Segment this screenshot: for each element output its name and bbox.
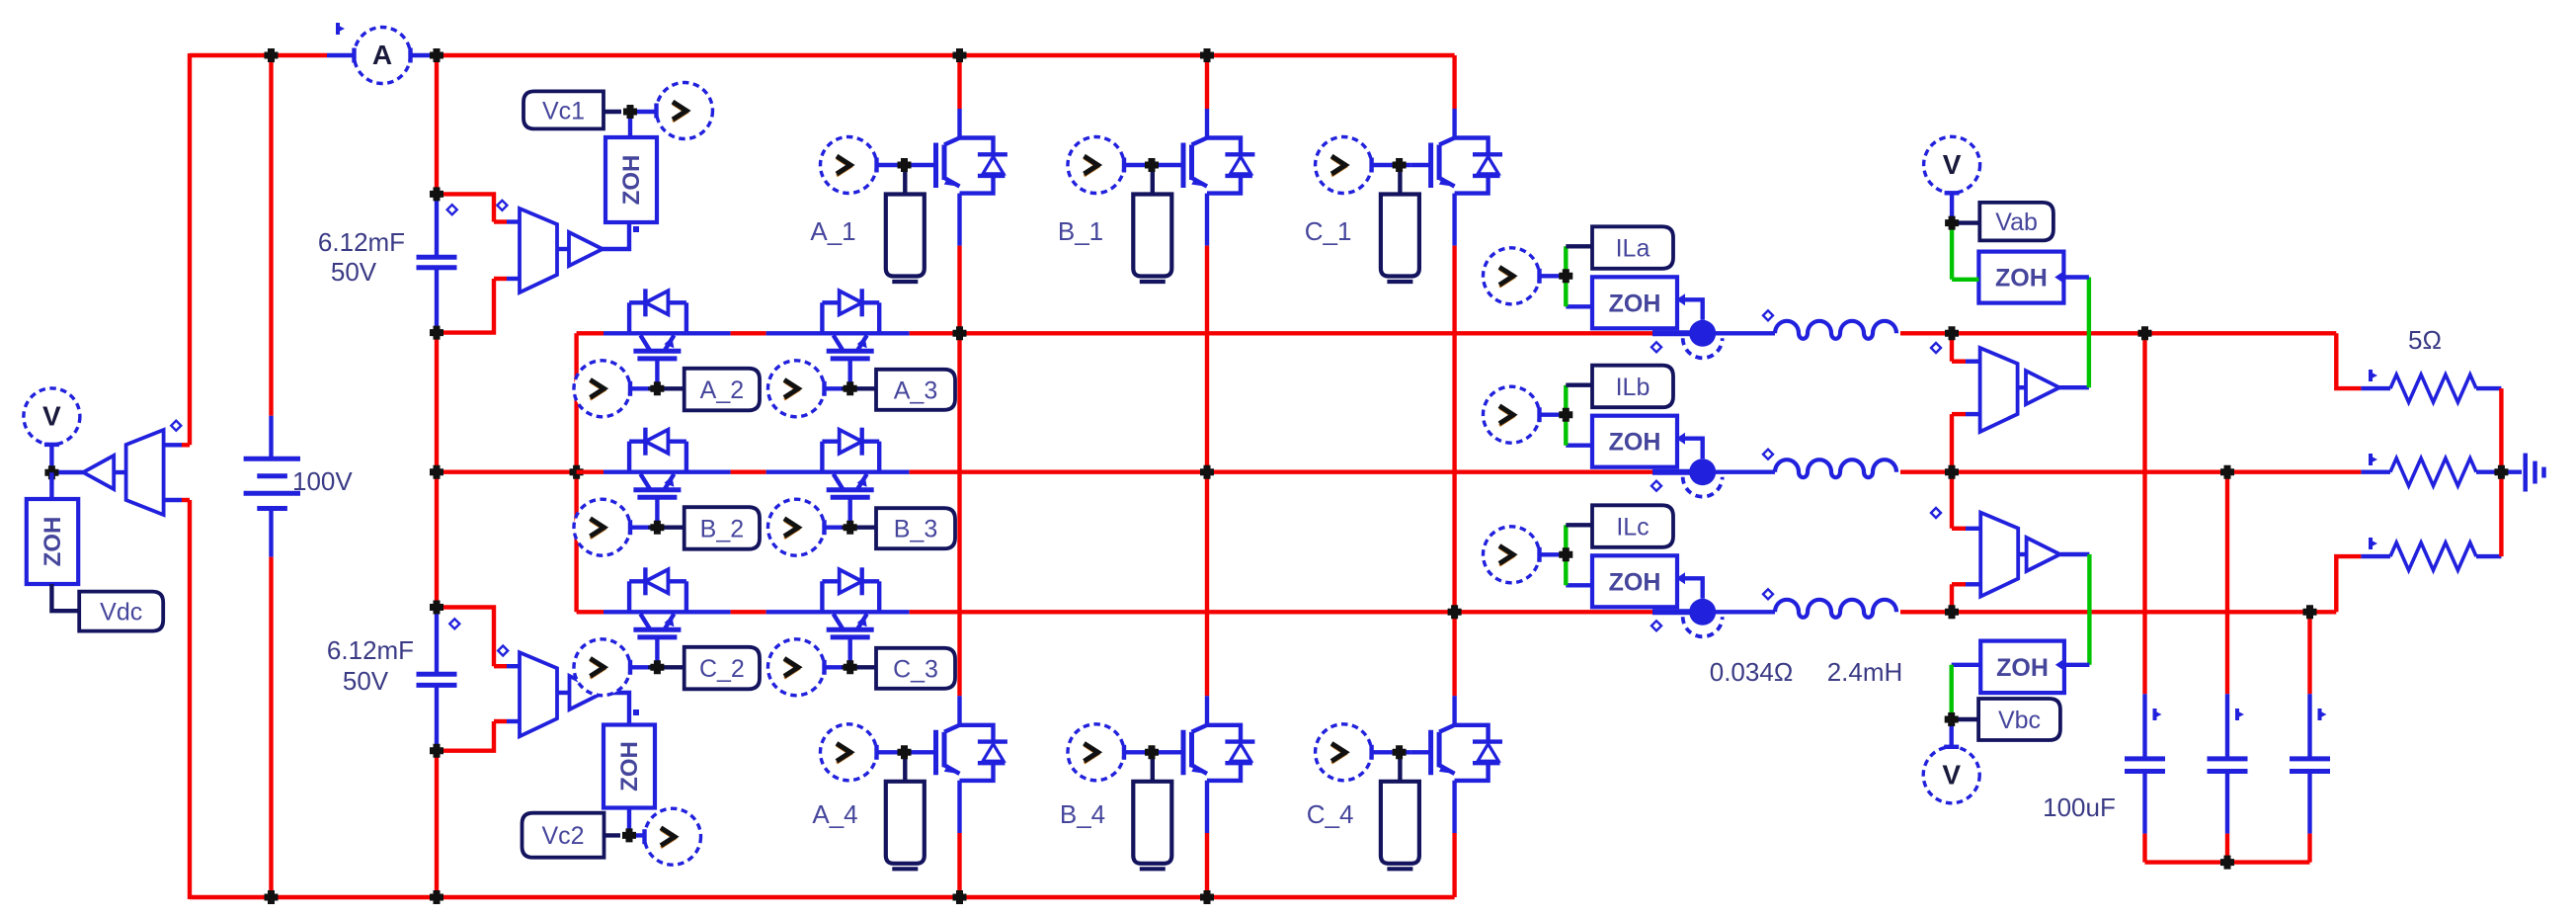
node A_3 gate [844, 381, 857, 395]
wire C1 bot tap [437, 279, 494, 333]
wire B_1 port link [1151, 165, 1155, 195]
gate probe C_3 [768, 639, 825, 696]
capacitor Cb 100uF [2208, 756, 2248, 761]
gain amp Vc1 [569, 232, 603, 266]
wire sensor to inductor [1716, 331, 1775, 335]
node B_3 gate [844, 521, 857, 535]
wire IL box link [1566, 383, 1592, 387]
ZOH block Vc1 [605, 137, 657, 222]
node sensor ILb [1559, 408, 1572, 422]
wire Cc tap [2307, 612, 2311, 694]
wire sensor signal [1685, 299, 1703, 320]
diode C_1 antiparallel [1455, 138, 1489, 155]
wire b output row [1207, 470, 1652, 474]
gate probe B_1 [1068, 137, 1124, 194]
transistor B_2 (clamp IGBT with diode) [627, 442, 631, 472]
wire C_4 port link [1398, 752, 1402, 782]
wire A_3 gate links [825, 386, 843, 390]
node source bottom [265, 890, 279, 904]
node mid bus [430, 465, 443, 479]
wire ammeter left stub [327, 53, 355, 57]
wire Vab lower stub [1950, 414, 1954, 472]
wire ZOH to Vdc box [51, 584, 79, 611]
svg-text:B_4: B_4 [1060, 799, 1105, 829]
transistor C_3 (clamp IGBT with diode) [820, 581, 824, 612]
inductor Lb 2.4mH [1775, 459, 1896, 477]
wire Rc out [2476, 554, 2501, 558]
node C_4 gate [1393, 745, 1407, 759]
wire inductor to node [1900, 331, 1952, 335]
wire node to probe [629, 833, 656, 837]
voltmeter mux Vc1 [520, 208, 557, 292]
wire Cb tap [2225, 472, 2229, 695]
wire sensor lead [1652, 609, 1690, 615]
node c row Vbc tap [1945, 605, 1959, 619]
wire C2 bot tap [437, 721, 494, 751]
svg-text:A_3: A_3 [894, 376, 937, 404]
wire B_1 gate link [1124, 163, 1164, 167]
polarity marker [498, 646, 508, 656]
capacitor C1 6.12mF [417, 255, 457, 260]
wire green link [1564, 246, 1568, 306]
svg-text:50V: 50V [343, 666, 389, 696]
wire Vdc mux bot stub [182, 498, 190, 502]
svg-text:Vab: Vab [1995, 208, 2038, 236]
node C_3 gate [844, 660, 857, 674]
wire cap chain C2 leads [435, 608, 439, 675]
transistor A_1 (IGBT) [933, 143, 938, 189]
ZOH block Vdc [27, 499, 78, 584]
svg-text:ZOH: ZOH [1609, 568, 1661, 596]
probe V dc-bus [24, 388, 80, 445]
polarity marker [1651, 621, 1661, 630]
svg-text:ZOH: ZOH [1609, 429, 1661, 457]
wire Vbc lower stub [1950, 584, 1954, 612]
voltmeter mux Vbc [1980, 513, 2018, 597]
wire Vab zoh in [2063, 275, 2089, 279]
wire C-leg bottom [1452, 781, 1456, 833]
probe V bc [1923, 747, 1979, 803]
wire green link [1564, 525, 1568, 585]
node C output [1448, 605, 1462, 619]
label box C_3 [876, 648, 955, 689]
wire sensor to inductor [1716, 610, 1775, 614]
node b row V tap [1945, 465, 1959, 479]
svg-text:B_1: B_1 [1058, 216, 1103, 246]
resistor Rc 5ohm [2390, 542, 2476, 570]
svg-text:B_3: B_3 [894, 516, 937, 543]
wire ZOH out link [1566, 444, 1592, 448]
label box A_3 [876, 370, 955, 410]
wire Ra out [2476, 386, 2501, 390]
wire Vbc zoh in [2064, 663, 2090, 667]
polarity marker [1931, 343, 1941, 353]
transistor A_4 (IGBT) [933, 730, 938, 776]
gate port A_4 [886, 782, 925, 864]
wire Vbc probe link [1949, 719, 1953, 747]
gate port B_4 [1133, 782, 1171, 864]
svg-text:ZOH: ZOH [1996, 654, 2049, 682]
wire A-leg middle [957, 194, 961, 246]
node Vdc [44, 465, 58, 479]
wire cap chain red top [435, 55, 439, 194]
label box C_2 [684, 647, 760, 690]
wire Vbc zoh out green [1952, 663, 1981, 667]
ZOH block Vab [1978, 252, 2063, 303]
node cap chain bottom [430, 890, 443, 904]
svg-text:Vdc: Vdc [100, 599, 142, 626]
node Cc row tap [2303, 605, 2317, 619]
label box Vab [1979, 203, 2053, 241]
diode A_4 antiparallel [960, 725, 994, 742]
wire Rc feed [2336, 556, 2361, 612]
wire ZOH out link [1566, 304, 1592, 308]
diode C_4 antiparallel [1455, 725, 1489, 742]
wire Vdc mux top stub [182, 443, 190, 447]
node B leg bottom [1200, 890, 1214, 904]
node B leg top [1200, 48, 1214, 62]
node A_2 gate [650, 381, 664, 395]
wire ammeter right stub [411, 53, 439, 57]
wire Vab box link [1952, 220, 1979, 224]
wire cap chain red bottom [435, 751, 439, 897]
label box ILb [1592, 366, 1673, 408]
current arrow marker [2369, 454, 2373, 465]
svg-text:V: V [42, 400, 61, 431]
wire A_2 gate links [630, 386, 648, 390]
node C_1 gate [1393, 158, 1407, 172]
svg-text:ILc: ILc [1616, 514, 1649, 542]
diode B_1 antiparallel [1207, 138, 1241, 155]
inductor Lc 2.4mH [1775, 600, 1896, 618]
gate probe A_2 [574, 361, 630, 417]
gate probe B_4 [1068, 724, 1124, 781]
diode B_4 antiparallel [1207, 725, 1241, 742]
ZOH block Vbc [1980, 641, 2064, 694]
voltmeter mux Vab [1980, 348, 2018, 432]
wire sensor lead [1652, 330, 1690, 336]
polarity marker [171, 421, 181, 431]
wire A-leg bottom [957, 781, 961, 833]
polarity marker [1651, 342, 1661, 352]
wire a-row to load [1952, 331, 2336, 335]
wire sensor lead [1652, 469, 1690, 475]
current arrow marker [2369, 538, 2373, 549]
label box ILa [1592, 226, 1673, 268]
label box B_2 [684, 507, 760, 549]
node C_2 gate [650, 660, 664, 674]
transistor C_2 (clamp IGBT with diode) [627, 581, 631, 612]
wire c-row rail [577, 610, 604, 614]
wire sensor signal [1685, 439, 1703, 459]
capacitor Ca 100uF [2125, 756, 2165, 761]
wire Cc bottom [2307, 772, 2311, 834]
wire Vbc box link [1952, 717, 1978, 721]
svg-text:A_4: A_4 [812, 799, 857, 829]
wire cap bank bottom bus [2145, 860, 2310, 864]
wire Vdc amp out [51, 470, 83, 474]
wire A_4 gate link [877, 750, 917, 754]
sample marker [633, 226, 639, 232]
node Ca row tap [2138, 326, 2152, 340]
wire Vc1 box link [604, 110, 621, 114]
gain amp Vc2 [570, 676, 604, 709]
wire sensor signal [1685, 578, 1703, 599]
wire c-row to load [1952, 610, 2336, 614]
wire Vab zoh out green [1952, 278, 1978, 282]
wire IL box link [1566, 523, 1592, 527]
transistor C_1 (IGBT) [1428, 143, 1433, 189]
node B_2 gate [650, 521, 664, 535]
polarity marker [1763, 310, 1773, 320]
wire node to ZOH [49, 472, 53, 499]
wire C-leg middle [1452, 194, 1456, 246]
wire b-row rail [577, 470, 604, 474]
current sensor ILb [1689, 458, 1716, 485]
wire Vdc mux out [114, 470, 125, 474]
wire inductor to node [1900, 610, 1952, 614]
svg-text:C_2: C_2 [699, 655, 745, 683]
wire B-leg middle [1205, 194, 1209, 246]
probe Vc1 [657, 83, 713, 139]
probe Vc2 [645, 808, 701, 865]
label box Vc1 [523, 91, 604, 128]
probe ILa [1484, 248, 1540, 304]
wire B_4 gate link [1124, 750, 1164, 754]
current arrow marker [2235, 709, 2239, 720]
wire ZOH out link [1566, 583, 1592, 587]
wire Vbc green down [2087, 554, 2091, 665]
diode A_1 antiparallel [960, 138, 994, 155]
wire Ca tap [2142, 333, 2146, 694]
wire Rb feed [2361, 470, 2390, 474]
wire Vbc mux out [2018, 552, 2026, 556]
gate port A_1 [886, 195, 925, 277]
svg-text:6.12mF: 6.12mF [327, 635, 414, 665]
wire B_2 gate links [630, 526, 648, 530]
wire A_1 port link [903, 165, 907, 195]
wire C_1 port link [1398, 165, 1402, 195]
wire left DC+ vertical (upper) [188, 53, 192, 445]
wire B_3 gate links [825, 526, 843, 530]
wire c output row [1455, 610, 1652, 614]
gate probe A_1 [821, 137, 877, 194]
wire green link [1564, 385, 1568, 446]
wire A_4 port link [903, 752, 907, 782]
ZOH block ILa [1592, 277, 1677, 328]
svg-text:100uF: 100uF [2043, 792, 2116, 822]
gate port B_1 [1133, 195, 1171, 277]
capacitor Cc 100uF [2290, 756, 2330, 761]
wire cap chain mid red [435, 333, 439, 608]
wire probe link [1540, 274, 1567, 278]
svg-text:B_2: B_2 [700, 516, 744, 543]
inductor La 2.4mH [1775, 321, 1896, 339]
wire inductor to node [1900, 470, 1952, 474]
svg-text:C_3: C_3 [893, 655, 938, 683]
svg-text:A_2: A_2 [700, 376, 744, 404]
node cap bank star [2220, 856, 2234, 870]
node A leg bottom [953, 890, 967, 904]
wire cap chain C1 leads [435, 194, 439, 257]
wire Cb bottom [2225, 772, 2229, 834]
wire probe link [1540, 552, 1567, 556]
wire Vc2 amp to ZOH [557, 691, 570, 695]
current arrow marker [2318, 709, 2322, 720]
wire Ca bottom [2142, 772, 2146, 834]
svg-text:V: V [1943, 149, 1962, 180]
ZOH block Vc2 [604, 725, 655, 808]
ground [2523, 454, 2528, 492]
wire B-leg bottom [1205, 781, 1209, 833]
svg-text:Vc2: Vc2 [541, 822, 584, 850]
wire probe link [1540, 413, 1567, 417]
polarity marker [1763, 450, 1773, 459]
probe ILb [1484, 386, 1540, 443]
gate port C_4 [1381, 782, 1419, 864]
wire C_1 gate link [1372, 163, 1411, 167]
svg-text:ILb: ILb [1616, 374, 1650, 401]
svg-text:ZOH: ZOH [1995, 265, 2048, 292]
svg-text:V: V [1942, 759, 1961, 790]
svg-text:Vbc: Vbc [1998, 707, 2041, 734]
wire A-leg top [957, 55, 961, 109]
polarity marker [1763, 589, 1773, 599]
gate probe A_4 [821, 724, 877, 781]
wire ZOH to node [628, 112, 632, 137]
transistor A_3 (clamp IGBT with diode) [820, 302, 824, 333]
wire C_2 gate links [630, 665, 648, 669]
svg-text:Vc1: Vc1 [542, 97, 585, 125]
node load star [2494, 465, 2508, 479]
sample marker [633, 709, 639, 715]
transistor A_2 (clamp IGBT with diode) [627, 302, 631, 333]
wire C_4 gate link [1372, 750, 1411, 754]
svg-text:ILa: ILa [1616, 235, 1650, 263]
label box ILc [1592, 505, 1673, 547]
current sensor ILc [1689, 599, 1716, 625]
svg-text:5Ω: 5Ω [2408, 325, 2442, 355]
svg-text:100V: 100V [292, 466, 353, 496]
wire clamp left vertical [574, 333, 578, 612]
gate probe B_2 [574, 499, 630, 555]
transistor C_4 (IGBT) [1428, 730, 1433, 776]
node Cb row tap [2220, 465, 2234, 479]
node Vab [1945, 216, 1959, 230]
capacitor C2 6.12mF [417, 672, 457, 677]
node B output [1200, 465, 1214, 479]
node mid bus tee [570, 465, 584, 479]
node B_1 gate [1145, 158, 1159, 172]
label box Vbc [1978, 699, 2060, 740]
wire source top [269, 55, 273, 416]
svg-text:C_4: C_4 [1307, 799, 1354, 829]
resistor Ra 5ohm [2390, 375, 2476, 402]
polarity marker [1651, 481, 1661, 491]
svg-text:A_1: A_1 [810, 216, 855, 246]
wire load star vertical [2499, 388, 2503, 556]
gate probe C_1 [1316, 137, 1372, 194]
svg-text:6.12mF: 6.12mF [318, 227, 405, 257]
gate probe C_2 [574, 639, 630, 696]
node a row Vab tap [1945, 326, 1959, 340]
wire Vab probe link [1950, 193, 1954, 227]
ZOH block ILc [1592, 555, 1677, 607]
gate probe A_3 [768, 361, 825, 417]
battery 100V [244, 457, 300, 461]
wire Vab upper stub [1950, 333, 1954, 361]
gain amp Vbc [2027, 538, 2060, 571]
polarity marker [1931, 508, 1941, 518]
current arrow marker [2153, 709, 2157, 720]
wire Vab green up [2087, 278, 2091, 388]
node A_1 gate [898, 158, 912, 172]
svg-text:0.034Ω: 0.034Ω [1710, 657, 1794, 687]
probe ILc [1484, 527, 1540, 583]
wire Vab amp out [2059, 385, 2089, 389]
wire Vdc probe link [49, 445, 53, 472]
node Vbc [1945, 712, 1959, 726]
node B_4 gate [1145, 745, 1159, 759]
node cap chain top [430, 48, 443, 62]
gain amp Vab [2026, 371, 2059, 404]
gate port C_1 [1381, 195, 1419, 277]
gain amp Vdc [83, 456, 114, 489]
resistor Rb 5ohm [2390, 458, 2476, 486]
node source top [265, 48, 279, 62]
voltmeter mux Vc2 [520, 652, 557, 736]
wire ZOH to node [627, 808, 631, 836]
wire C-leg top [1452, 55, 1456, 109]
wire Vc2 box link [604, 833, 621, 837]
node C1 top [430, 187, 443, 201]
probe V ab [1924, 136, 1980, 193]
label box Vdc [79, 592, 163, 631]
current arrow marker [2369, 370, 2373, 381]
wire b-row to load [1952, 470, 2361, 474]
node Vc1 [623, 105, 637, 119]
wire mid bus to clamp [437, 470, 577, 474]
wire Rb out [2476, 470, 2522, 474]
wire B-leg top [1205, 55, 1209, 109]
current arrow marker [336, 23, 340, 35]
voltmeter mux Vdc [126, 430, 164, 515]
node sensor ILa [1559, 269, 1572, 283]
node sensor ILc [1559, 547, 1572, 561]
node C2 top [430, 601, 443, 615]
wire bottom DC- bus [190, 895, 1455, 899]
polarity marker [497, 201, 507, 210]
transistor B_3 (clamp IGBT with diode) [820, 442, 824, 472]
svg-text:50V: 50V [331, 257, 377, 287]
wire Vab mux out [2018, 385, 2026, 389]
wire B_4 port link [1151, 752, 1155, 782]
wire top DC+ bus [190, 53, 327, 57]
wire a output row [960, 331, 1653, 335]
svg-text:ZOH: ZOH [616, 741, 643, 792]
svg-text:ZOH: ZOH [1609, 290, 1661, 317]
gate probe B_3 [768, 499, 825, 555]
node A output [953, 326, 967, 340]
wire C_3 gate links [825, 665, 843, 669]
wire sensor to inductor [1716, 470, 1775, 474]
svg-text:ZOH: ZOH [618, 155, 645, 206]
node A_4 gate [898, 745, 912, 759]
node C2 bottom [430, 744, 443, 758]
wire Vc1 amp to ZOH [557, 247, 569, 251]
label box A_2 [684, 369, 760, 411]
wire node to probe [630, 110, 657, 114]
